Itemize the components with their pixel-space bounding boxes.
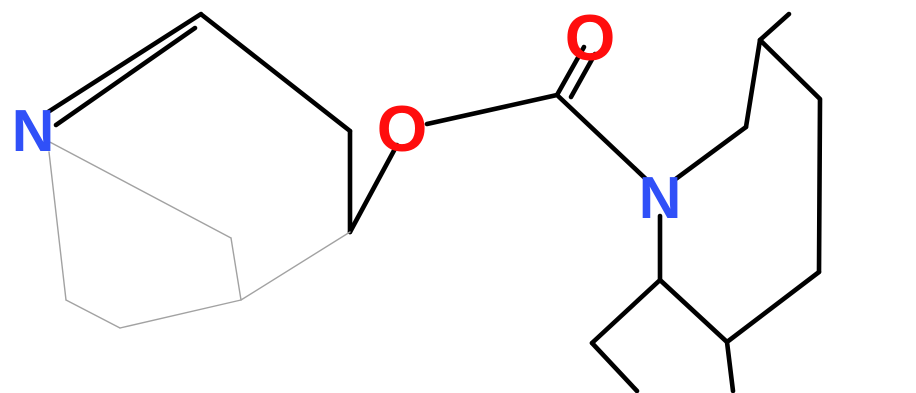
wire C4-O1 bbox=[350, 145, 397, 232]
wire B-C long vertical bbox=[819, 100, 820, 272]
wire Q4-N1 thin bbox=[49, 152, 66, 300]
wire N2-D vertical bbox=[658, 216, 663, 280]
svg-text:N: N bbox=[12, 98, 55, 164]
svg-text:O: O bbox=[565, 1, 616, 74]
wire C1-N2 bbox=[557, 95, 647, 180]
wire N1=C2 double bond main line bbox=[48, 14, 201, 112]
wire Q3-Q4 thin bbox=[66, 300, 120, 328]
wire D-E bbox=[592, 280, 660, 343]
wire A-B bbox=[760, 40, 820, 99]
svg-text:N: N bbox=[639, 165, 682, 231]
wire D-F bbox=[660, 280, 727, 342]
wire V1-A vertical bbox=[746, 40, 760, 127]
wire C1=O2 double bond line 1 bbox=[557, 47, 584, 95]
wire Q1-Q2 thin bbox=[231, 238, 241, 300]
wire O1-C1 bbox=[427, 95, 557, 124]
wire C-F bbox=[727, 272, 819, 342]
wire Q2-C4 thin bbox=[241, 232, 350, 300]
wire C1=O2 double bond line 2 bbox=[571, 54, 595, 97]
wire F down clipped bbox=[727, 342, 733, 391]
wire A-S stub bbox=[760, 14, 789, 40]
wire N2-V1 bbox=[673, 127, 746, 181]
wire N1-Q1 thin back bond bbox=[46, 140, 231, 238]
wire N1=C2 double bond inset line bbox=[56, 28, 195, 125]
wire Q2-Q3 thin bbox=[120, 300, 241, 328]
svg-text:O: O bbox=[377, 92, 428, 165]
wire C2-C3 bbox=[202, 15, 350, 131]
wire C3-C4 vertical bbox=[348, 131, 353, 232]
wire E-H clipped bbox=[592, 343, 637, 391]
